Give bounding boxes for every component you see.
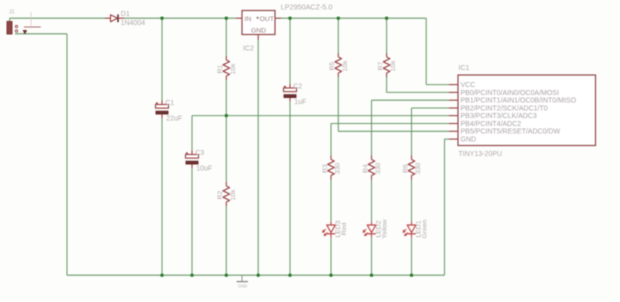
svg-text:C3: C3 xyxy=(195,150,204,157)
svg-text:330: 330 xyxy=(375,163,382,175)
svg-text:R7: R7 xyxy=(377,61,384,70)
svg-text:R4: R4 xyxy=(362,164,369,173)
svg-text:IN: IN xyxy=(245,16,252,23)
svg-text:C2: C2 xyxy=(293,84,302,91)
svg-text:LP2950ACZ-5.0: LP2950ACZ-5.0 xyxy=(281,3,333,12)
svg-text:R5: R5 xyxy=(329,61,336,70)
svg-text:10k: 10k xyxy=(342,60,349,72)
svg-text:PB2/PCINT2/SCK/ADC1/T0: PB2/PCINT2/SCK/ADC1/T0 xyxy=(461,105,548,112)
svg-text:GND: GND xyxy=(461,137,477,144)
svg-text:10k: 10k xyxy=(230,63,237,75)
svg-text:1N4004: 1N4004 xyxy=(121,20,146,27)
svg-text:330: 330 xyxy=(415,163,422,175)
svg-text:C1: C1 xyxy=(165,100,174,107)
svg-text:IC1: IC1 xyxy=(459,65,470,72)
svg-text:10k: 10k xyxy=(230,189,237,201)
svg-text:R2: R2 xyxy=(217,190,224,199)
svg-text:1uF: 1uF xyxy=(294,99,306,106)
svg-text:D1: D1 xyxy=(121,11,130,18)
svg-text:R1: R1 xyxy=(217,64,224,73)
svg-text:22uF: 22uF xyxy=(166,116,182,123)
svg-text:IC2: IC2 xyxy=(243,45,254,52)
svg-text:R6: R6 xyxy=(402,164,409,173)
svg-text:GND: GND xyxy=(251,28,266,35)
svg-text:PB4/PCINT4/ADC2: PB4/PCINT4/ADC2 xyxy=(461,121,522,128)
svg-text:Red: Red xyxy=(341,223,348,236)
svg-text:PB3/PCINT3/CLK/ADC3: PB3/PCINT3/CLK/ADC3 xyxy=(461,113,537,120)
svg-text:TINY13-20PU: TINY13-20PU xyxy=(459,151,503,158)
svg-text:330: 330 xyxy=(335,163,342,175)
svg-text:PB5/PCINT5/RESET/ADC0/DW: PB5/PCINT5/RESET/ADC0/DW xyxy=(461,129,561,136)
svg-text:GND: GND xyxy=(238,284,247,289)
svg-text:Yellow: Yellow xyxy=(381,219,388,238)
svg-text:10k: 10k xyxy=(390,60,397,72)
svg-text:J1: J1 xyxy=(9,10,15,16)
svg-text:OUT: OUT xyxy=(260,16,274,23)
svg-text:10uF: 10uF xyxy=(196,166,212,173)
svg-text:R3: R3 xyxy=(322,164,329,173)
svg-text:Green: Green xyxy=(421,219,428,238)
svg-text:PB0/PCINT0/AIN0/OC0A/MOSI: PB0/PCINT0/AIN0/OC0A/MOSI xyxy=(461,90,559,97)
svg-text:VCC: VCC xyxy=(461,82,476,89)
svg-text:PB1/PCINT1/AIN1/OC0B/INT0/MISO: PB1/PCINT1/AIN1/OC0B/INT0/MISO xyxy=(461,98,577,105)
